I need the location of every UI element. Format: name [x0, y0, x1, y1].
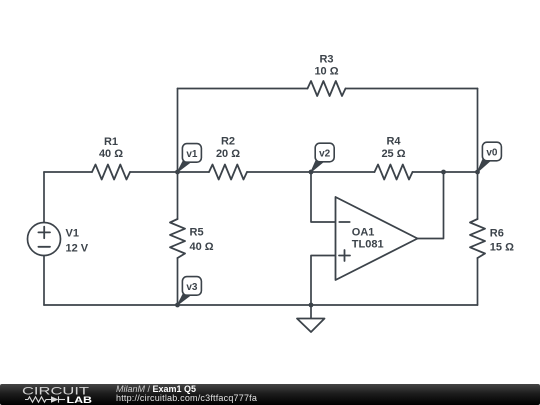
- wire R5 to v3: [177, 258, 179, 305]
- wire v0 vertical top branch leg: [477, 89, 479, 173]
- voltage source V1: [28, 223, 89, 256]
- node v2: [311, 143, 334, 172]
- resistor R2: [209, 136, 247, 180]
- resistor R6: [470, 219, 514, 258]
- svg-text:v2: v2: [319, 148, 331, 159]
- ground: [297, 305, 325, 332]
- svg-text:v3: v3: [186, 282, 198, 293]
- footer title text: [116, 385, 196, 394]
- wire R6 to bottom rail: [477, 258, 479, 305]
- resistor R1: [92, 136, 130, 180]
- wire bottom rail: [44, 304, 478, 306]
- wire left branch bottom (V1 circle to bottom rail): [43, 256, 45, 306]
- svg-text:R4: R4: [386, 136, 401, 148]
- wire v0 to R6: [477, 172, 479, 219]
- junction at feedback node: [441, 170, 446, 175]
- wire top rail left of R3: [178, 88, 308, 90]
- svg-text:R5: R5: [190, 227, 204, 239]
- junction at ground node: [309, 303, 314, 308]
- svg-text:R6: R6: [490, 228, 504, 240]
- wire main rail R4 to node v0: [413, 171, 478, 173]
- svg-text:R1: R1: [104, 136, 118, 148]
- svg-text:V1: V1: [66, 228, 79, 240]
- svg-text:LAB: LAB: [67, 395, 93, 405]
- wire v2 down to op-amp inverting input: [311, 172, 336, 222]
- junction at v2: [309, 170, 314, 175]
- svg-text:15 Ω: 15 Ω: [490, 241, 514, 253]
- junction at v0: [475, 170, 480, 175]
- CircuitLab logo: [0, 384, 110, 405]
- wire left branch top (node to V1 circle): [43, 172, 45, 223]
- svg-text:v1: v1: [186, 149, 198, 160]
- svg-text:R2: R2: [221, 136, 235, 148]
- footer bar: [0, 384, 540, 405]
- svg-text:12 V: 12 V: [66, 243, 89, 255]
- svg-text:v0: v0: [486, 147, 498, 158]
- node v3: [178, 277, 202, 305]
- footer url text: [116, 394, 257, 403]
- wire v1 to R5: [177, 172, 179, 219]
- svg-text:40 Ω: 40 Ω: [190, 241, 214, 253]
- resistor R4: [375, 136, 413, 180]
- svg-text:R3: R3: [319, 53, 333, 65]
- wire top rail right of R3: [346, 88, 478, 90]
- svg-text:TL081: TL081: [352, 239, 384, 251]
- junction at v1: [175, 170, 180, 175]
- wire v1 vertical top branch leg: [177, 89, 179, 173]
- node v1: [178, 144, 202, 172]
- resistor R5: [170, 219, 214, 258]
- op-amp OA1: [336, 197, 418, 280]
- wire main rail R2 to R4 through node v2: [247, 171, 375, 173]
- svg-text:10 Ω: 10 Ω: [314, 66, 338, 78]
- svg-text:20 Ω: 20 Ω: [216, 148, 240, 160]
- node v0: [478, 142, 502, 172]
- resistor R3: [308, 53, 346, 96]
- wire main rail R1 to R2 through node v1: [130, 171, 209, 173]
- junction at v3: [175, 303, 180, 308]
- svg-text:OA1: OA1: [352, 226, 375, 238]
- wire main rail left (V1 top to R1): [44, 171, 92, 173]
- svg-text:40 Ω: 40 Ω: [99, 148, 123, 160]
- wire op-amp non-inverting input down to ground rail: [311, 256, 336, 306]
- wire op-amp output to feedback junction: [418, 172, 444, 239]
- svg-text:25 Ω: 25 Ω: [381, 148, 405, 160]
